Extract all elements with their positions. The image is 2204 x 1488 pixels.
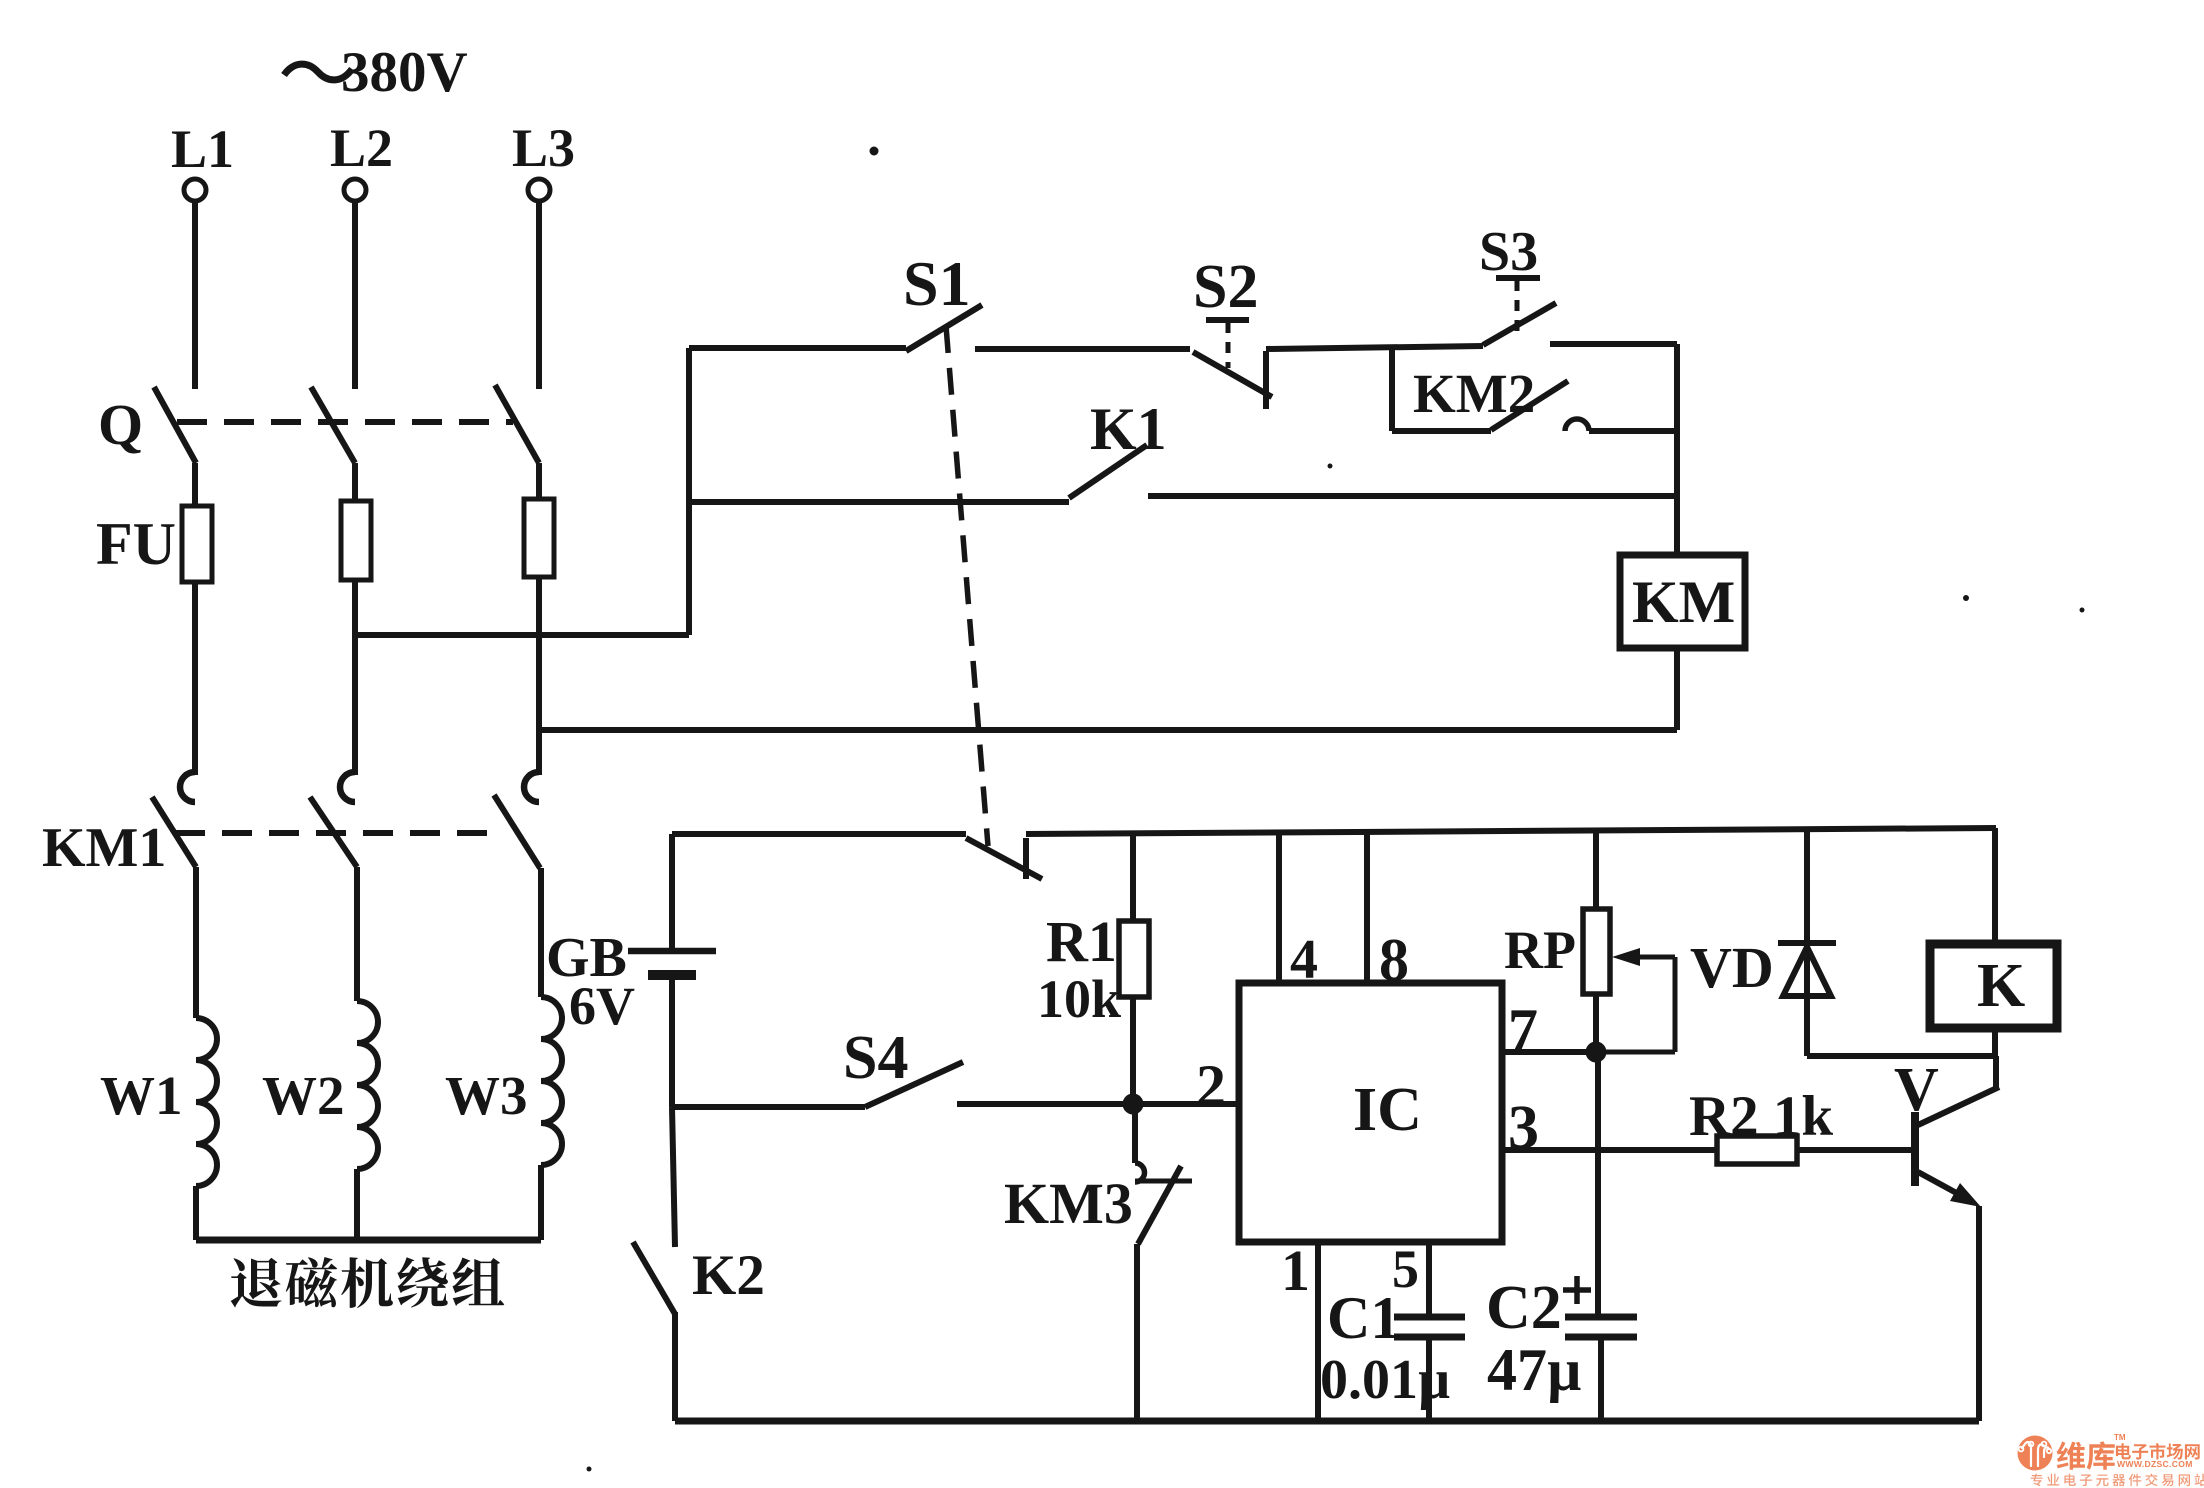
svg-text:1: 1 (1281, 1238, 1310, 1303)
svg-text:W1: W1 (100, 1065, 183, 1126)
svg-text:KM2: KM2 (1413, 363, 1535, 424)
svg-text:L1: L1 (171, 119, 234, 179)
svg-text:2: 2 (1196, 1053, 1226, 1119)
svg-text:C1: C1 (1327, 1285, 1400, 1351)
svg-text:W3: W3 (445, 1065, 528, 1126)
svg-text:WWW.DZSC.COM: WWW.DZSC.COM (2117, 1459, 2193, 1469)
svg-text:IC: IC (1353, 1076, 1422, 1144)
svg-text:S1: S1 (903, 248, 971, 319)
svg-text:4: 4 (1290, 929, 1318, 991)
svg-text:S4: S4 (843, 1024, 908, 1092)
svg-text:L3: L3 (512, 118, 575, 178)
svg-text:7: 7 (1508, 997, 1538, 1063)
svg-text:TM: TM (2114, 1433, 2126, 1442)
svg-text:FU: FU (96, 511, 176, 577)
svg-text:0.01µ: 0.01µ (1320, 1349, 1450, 1411)
svg-text:VD: VD (1690, 935, 1774, 1000)
svg-text:R2 1k: R2 1k (1689, 1085, 1833, 1148)
svg-text:K1: K1 (1090, 396, 1167, 462)
svg-text:KM1: KM1 (42, 817, 166, 879)
svg-text:KM3: KM3 (1004, 1171, 1133, 1236)
svg-text:8: 8 (1379, 927, 1409, 993)
svg-text:K: K (1977, 952, 2025, 1020)
svg-text:6V: 6V (569, 976, 635, 1036)
svg-text:RP: RP (1504, 920, 1576, 980)
svg-text:C2: C2 (1486, 1274, 1562, 1342)
svg-text:V: V (1894, 1056, 1939, 1124)
svg-text:S3: S3 (1479, 221, 1538, 283)
svg-text:KM: KM (1632, 569, 1735, 635)
svg-text:S2: S2 (1193, 253, 1258, 321)
svg-text:R1: R1 (1046, 909, 1117, 974)
svg-text:3: 3 (1508, 1094, 1539, 1162)
svg-text:Q: Q (98, 392, 143, 457)
svg-text:10k: 10k (1037, 969, 1121, 1029)
svg-text:L2: L2 (330, 118, 393, 178)
svg-text:47µ: 47µ (1487, 1337, 1582, 1403)
svg-text:380V: 380V (341, 41, 468, 104)
svg-text:W2: W2 (262, 1065, 345, 1126)
svg-text:K2: K2 (692, 1244, 765, 1307)
